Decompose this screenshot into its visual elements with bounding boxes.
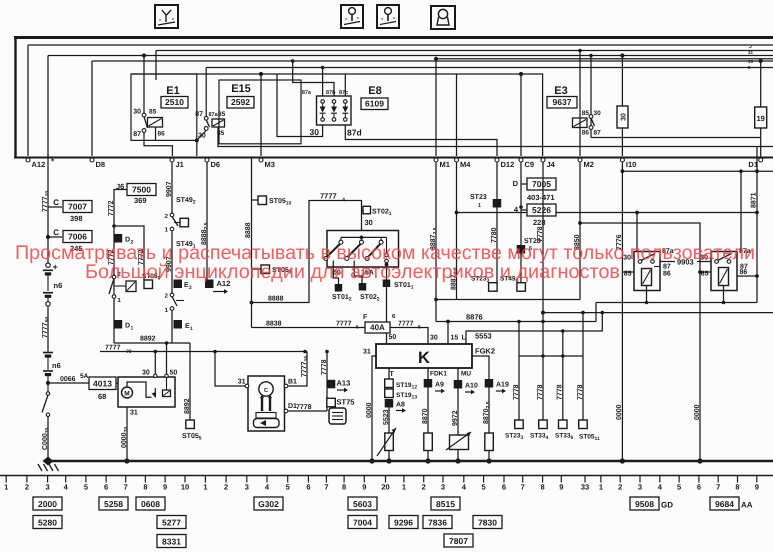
wire riser A12 xyxy=(27,45,29,156)
svg-text:398: 398 xyxy=(70,214,83,223)
splice A12 arrow xyxy=(205,280,214,289)
ignition switch box xyxy=(327,231,399,268)
wire y223 right xyxy=(580,223,700,272)
relay K1 85 wire xyxy=(622,271,634,273)
svg-text:7778: 7778 xyxy=(577,384,584,400)
svg-text:31: 31 xyxy=(130,410,138,417)
svg-text:85: 85 xyxy=(218,111,226,118)
svg-text:A19: A19 xyxy=(496,382,509,389)
svg-text:7830: 7830 xyxy=(478,518,497,528)
switch side resistor xyxy=(114,285,126,287)
svg-text:8838: 8838 xyxy=(266,321,282,328)
wire relay bottoms y302 xyxy=(596,302,757,304)
svg-text:A10: A10 xyxy=(465,383,478,390)
svg-text:15: 15 xyxy=(451,335,459,342)
wire M1 column 8887 xyxy=(435,162,437,300)
svg-text:9637: 9637 xyxy=(553,97,572,107)
wire cross y299 xyxy=(436,299,580,301)
icon lamp symbol 4 xyxy=(431,6,455,29)
terminal I10 xyxy=(620,158,624,162)
svg-text:30: 30 xyxy=(133,109,141,116)
svg-text:7004: 7004 xyxy=(353,518,372,528)
ground junction battery xyxy=(43,457,54,466)
terminal star xyxy=(47,154,49,162)
svg-text:31: 31 xyxy=(748,50,754,55)
svg-text:9: 9 xyxy=(163,483,167,492)
svg-text:C9: C9 xyxy=(525,160,535,169)
svg-text:I10: I10 xyxy=(626,160,636,169)
svg-text:E8: E8 xyxy=(368,85,381,97)
svg-text:E3: E3 xyxy=(554,85,567,97)
wire L5 y67.5 xyxy=(206,67,773,69)
connector C 7007 xyxy=(48,206,62,208)
svg-text:31: 31 xyxy=(363,349,371,356)
svg-text:M1: M1 xyxy=(440,160,450,169)
svg-text:30: 30 xyxy=(594,110,602,117)
relay E1 contact xyxy=(142,113,146,117)
svg-text:403-471: 403-471 xyxy=(527,193,555,202)
ignition contacts xyxy=(339,240,343,244)
svg-text:10: 10 xyxy=(181,483,189,492)
battery n6 second xyxy=(43,352,53,354)
connector ST05-11 xyxy=(582,356,584,420)
wire 7777-10 xyxy=(47,162,49,265)
fuse 4013 box xyxy=(89,377,116,390)
svg-text:D: D xyxy=(125,323,130,330)
relay K2 coil xyxy=(719,268,729,286)
gauge coils xyxy=(261,397,263,411)
svg-text:J1: J1 xyxy=(176,160,184,169)
code box 9508 GD xyxy=(630,497,659,510)
node 8876 J4 cross xyxy=(541,320,545,324)
wire starter 50 riser xyxy=(166,343,168,374)
axis ticks and numbers xyxy=(5,476,7,483)
wire 8871 column xyxy=(756,147,758,303)
svg-text:1: 1 xyxy=(131,326,134,332)
svg-text:2: 2 xyxy=(224,483,228,492)
svg-text:5: 5 xyxy=(677,483,681,492)
svg-text:86: 86 xyxy=(582,130,590,137)
svg-text:50: 50 xyxy=(389,334,397,341)
wire 9972 sensor xyxy=(457,389,459,436)
wire riser E1 pin30 xyxy=(143,56,145,114)
svg-text:7777: 7777 xyxy=(398,321,414,328)
svg-text:8515: 8515 xyxy=(436,499,455,509)
svg-text:87c: 87c xyxy=(339,90,348,96)
wire 9907 column xyxy=(171,162,173,213)
svg-text:MU: MU xyxy=(461,371,471,378)
svg-text:1: 1 xyxy=(203,483,207,492)
svg-text:8870: 8870 xyxy=(422,408,429,424)
wire J4 column 7778 xyxy=(542,162,544,356)
relay K2 contact xyxy=(715,260,719,264)
svg-text:8331: 8331 xyxy=(162,537,181,547)
svg-text:8892: 8892 xyxy=(184,398,191,414)
svg-text:7: 7 xyxy=(521,483,525,492)
svg-text:85: 85 xyxy=(582,110,590,117)
relay E3 coil xyxy=(573,118,588,128)
svg-text:40A: 40A xyxy=(370,323,385,332)
starter internal wiring xyxy=(127,382,152,397)
wire 7778 riser A13 xyxy=(326,352,328,412)
wire 8876 drop to connector bar xyxy=(518,322,520,357)
connector ST05-10 xyxy=(252,199,259,201)
node L4b-M1 xyxy=(434,57,438,61)
starter motor M xyxy=(122,387,133,398)
svg-text:8: 8 xyxy=(342,483,346,492)
wire relay2 87a riser xyxy=(740,171,742,251)
splice ST01-1 xyxy=(383,280,391,288)
terminal A12 xyxy=(26,158,30,162)
svg-text:GD: GD xyxy=(661,501,673,510)
svg-text:7007: 7007 xyxy=(68,202,87,212)
connector ST33-4 xyxy=(542,356,544,420)
gauge sensor plate xyxy=(256,413,276,419)
relay K2 coil bottom wire xyxy=(723,286,725,303)
svg-text:7780: 7780 xyxy=(491,227,498,243)
svg-text:6: 6 xyxy=(418,325,421,331)
relay K1 riser 30 xyxy=(636,213,638,252)
relay E1 enclosure xyxy=(131,74,197,140)
svg-text:85: 85 xyxy=(149,109,157,116)
svg-text:9907: 9907 xyxy=(166,181,173,197)
svg-text:30: 30 xyxy=(621,113,628,121)
connector ST23-3 xyxy=(518,356,520,420)
svg-text:9684: 9684 xyxy=(715,499,734,509)
splice D1 left xyxy=(114,320,123,329)
code box 5280 xyxy=(33,516,62,529)
node L3-fuseX xyxy=(620,53,624,57)
wire 5553 drop to connector bar xyxy=(562,331,564,356)
wire riser D8 xyxy=(91,61,93,156)
E8 code box 6109 xyxy=(361,98,388,110)
terminal D12 xyxy=(495,158,499,162)
wire riser E15 pin xyxy=(205,68,207,118)
wire riser C9 top xyxy=(520,74,522,156)
axis line xyxy=(0,475,773,477)
wire 0000 column right xyxy=(699,272,701,461)
connector ST33-6 xyxy=(562,356,564,420)
svg-text:M4: M4 xyxy=(460,160,471,169)
relay E1 87 wire to J1 xyxy=(144,132,172,156)
relay K2 86 wire xyxy=(737,275,757,277)
svg-text:1: 1 xyxy=(478,203,481,209)
svg-text:9972: 9972 xyxy=(452,410,459,426)
svg-text:L: L xyxy=(462,335,467,342)
wire branch to ST05-8 xyxy=(114,226,144,280)
relay E1 86 wire to node xyxy=(155,127,157,140)
svg-text:2510: 2510 xyxy=(165,97,184,107)
icon bulb-key symbol 2 xyxy=(341,5,363,28)
svg-text:50: 50 xyxy=(170,370,178,377)
wire L4b y58.8 xyxy=(436,58,773,60)
svg-text:87: 87 xyxy=(133,131,141,138)
svg-text:B1: B1 xyxy=(288,379,297,386)
svg-text:M2: M2 xyxy=(584,160,594,169)
wire gauge 31 left riser xyxy=(215,352,245,387)
svg-text:3: 3 xyxy=(638,483,642,492)
svg-text:7778: 7778 xyxy=(557,384,564,400)
svg-text:0000: 0000 xyxy=(694,404,701,420)
code box 8331 xyxy=(157,535,186,548)
svg-text:7807: 7807 xyxy=(449,536,468,546)
wire extra right band from E15 85 xyxy=(218,128,773,147)
svg-text:FDK1: FDK1 xyxy=(430,371,447,378)
svg-text:A13: A13 xyxy=(337,378,351,387)
svg-text:19: 19 xyxy=(757,114,765,123)
svg-text:9: 9 xyxy=(559,483,563,492)
svg-text:n6: n6 xyxy=(54,281,63,290)
svg-text:7006: 7006 xyxy=(68,232,87,242)
svg-text:K: K xyxy=(418,349,430,367)
wire riser M2-E3 xyxy=(579,51,581,157)
svg-text:2: 2 xyxy=(422,483,426,492)
wire M2 column 8850 xyxy=(579,162,581,300)
diode E8-3 xyxy=(344,100,348,104)
svg-text:30: 30 xyxy=(310,127,320,137)
connector ST49-6 xyxy=(517,283,526,292)
code box G302 xyxy=(254,497,283,510)
svg-text:1: 1 xyxy=(4,483,8,492)
svg-text:31: 31 xyxy=(238,379,246,386)
terminal M3 xyxy=(259,158,263,162)
svg-text:E1: E1 xyxy=(166,85,179,97)
svg-text:0000: 0000 xyxy=(366,402,373,418)
node J4 y212 xyxy=(541,211,545,215)
wire connector bar xyxy=(519,355,583,357)
connector 4 5226 xyxy=(519,205,523,209)
svg-text:C: C xyxy=(53,198,59,207)
terminal J1 xyxy=(170,158,174,162)
fuse 30 mid xyxy=(621,56,623,107)
node branch 7772 xyxy=(112,224,116,228)
svg-text:2: 2 xyxy=(25,483,29,492)
svg-text:7772: 7772 xyxy=(108,200,115,216)
svg-text:1: 1 xyxy=(190,326,193,332)
svg-text:A9: A9 xyxy=(435,382,444,389)
clock module icon xyxy=(329,408,346,424)
wire 9903 xyxy=(660,261,675,263)
code box 7836 xyxy=(423,516,452,529)
wire E3 87 to D1 column xyxy=(591,137,761,139)
svg-text:9508: 9508 xyxy=(635,499,654,509)
svg-text:30: 30 xyxy=(430,335,438,342)
svg-text:3: 3 xyxy=(46,483,50,492)
svg-text:A12: A12 xyxy=(32,160,46,169)
K pin T chain xyxy=(388,368,390,379)
svg-text:7: 7 xyxy=(124,483,128,492)
svg-text:87: 87 xyxy=(195,111,203,118)
node J4 y312 xyxy=(541,311,545,315)
switch J6 column xyxy=(112,275,116,279)
svg-text:3: 3 xyxy=(441,483,445,492)
svg-text:FGK2: FGK2 xyxy=(475,347,495,356)
svg-text:86: 86 xyxy=(663,271,671,278)
svg-text:T: T xyxy=(390,371,395,378)
code box 7830 xyxy=(473,516,502,529)
wire y212 right xyxy=(457,212,758,214)
svg-text:2: 2 xyxy=(189,285,192,291)
terminal M4 xyxy=(455,158,459,162)
relay K2 box xyxy=(711,252,737,291)
svg-text:5226: 5226 xyxy=(532,205,551,215)
wire E8 87b to L4 xyxy=(293,61,334,96)
svg-text:86: 86 xyxy=(158,131,166,138)
svg-text:F: F xyxy=(363,314,368,321)
svg-text:6: 6 xyxy=(697,483,701,492)
node L3-E1 xyxy=(142,53,146,57)
svg-text:0066: 0066 xyxy=(60,376,76,383)
wire 7780 column xyxy=(496,208,498,283)
svg-text:7778: 7778 xyxy=(537,384,544,400)
svg-text:86: 86 xyxy=(740,269,748,276)
node 8888 branch xyxy=(250,301,254,305)
svg-text:D8: D8 xyxy=(96,160,106,169)
connector C 7006 xyxy=(46,235,50,239)
svg-text:7778: 7778 xyxy=(296,404,312,411)
svg-text:2592: 2592 xyxy=(231,97,250,107)
battery n6 plus xyxy=(46,263,50,267)
code box 2000 xyxy=(33,497,62,510)
connector ST23-3 mid xyxy=(489,283,498,292)
wire starter 30 riser xyxy=(154,352,156,375)
wire 8888 horizontal xyxy=(252,201,362,303)
svg-text:5: 5 xyxy=(84,483,88,492)
svg-text:8876: 8876 xyxy=(466,313,483,322)
wire K31 to ground xyxy=(372,356,376,461)
svg-text:5277: 5277 xyxy=(162,518,181,528)
wire corner to E8 pin30 xyxy=(277,74,323,137)
svg-text:5: 5 xyxy=(482,483,486,492)
splice ST02-2 xyxy=(359,283,367,291)
relay E15 contact xyxy=(204,116,208,120)
wire L1 y45 xyxy=(28,44,773,46)
svg-text:5553: 5553 xyxy=(475,332,492,341)
svg-text:7778: 7778 xyxy=(537,226,544,242)
svg-text:Большой энциклопедии для автоэ: Большой энциклопедии для автоэлектриков … xyxy=(85,261,620,283)
svg-text:6: 6 xyxy=(502,483,506,492)
wire 8838 to fuse 40A row xyxy=(252,328,429,345)
svg-text:M3: M3 xyxy=(265,160,275,169)
svg-text:G302: G302 xyxy=(258,499,279,509)
switch lower J1 xyxy=(170,293,174,297)
svg-text:A8: A8 xyxy=(396,402,405,409)
relay E15 enclosure xyxy=(219,80,301,144)
starter motor box xyxy=(118,377,175,407)
svg-text:70: 70 xyxy=(126,349,132,355)
wire L3 y55.5 xyxy=(48,55,773,57)
svg-text:1: 1 xyxy=(599,483,603,492)
svg-text:369: 369 xyxy=(134,196,147,205)
svg-text:9: 9 xyxy=(755,483,759,492)
svg-text:87a: 87a xyxy=(302,90,312,96)
wire 8888-2.5 column xyxy=(206,162,208,280)
node L6-M3 xyxy=(259,72,263,76)
svg-text:5603: 5603 xyxy=(353,499,372,509)
svg-text:D12: D12 xyxy=(501,160,515,169)
svg-text:9: 9 xyxy=(362,483,366,492)
connector D 7005 xyxy=(520,162,522,255)
wire riser E15 top xyxy=(155,51,157,81)
wire y171 right xyxy=(622,170,773,172)
svg-text:8: 8 xyxy=(143,483,147,492)
code box 0608 xyxy=(136,497,165,510)
node L6-C9 xyxy=(519,72,523,76)
fuel gauge box xyxy=(248,376,285,431)
svg-text:0608: 0608 xyxy=(141,499,160,509)
wire M4 column 8887 xyxy=(456,162,458,300)
wire 8876 riser K15 xyxy=(447,322,449,345)
icon bulb-key symbol 3 xyxy=(377,5,399,28)
wire riser M4 xyxy=(456,74,458,156)
code box 7004 xyxy=(348,516,377,529)
splice E2 xyxy=(174,280,183,289)
code box 9684 AA xyxy=(710,497,739,510)
diode E8-1 xyxy=(321,100,325,104)
svg-text:2000: 2000 xyxy=(38,499,57,509)
svg-text:D6: D6 xyxy=(211,160,221,169)
wire 5553 from L pin xyxy=(466,313,602,344)
relay K1 contact xyxy=(638,260,642,264)
wire I10 column 7776 xyxy=(621,162,623,272)
wire B1 to 7777-16 xyxy=(288,352,307,387)
svg-text:16: 16 xyxy=(748,59,754,64)
code box 7807 xyxy=(444,534,473,547)
svg-text:7777: 7777 xyxy=(320,192,337,201)
svg-text:J4: J4 xyxy=(547,160,556,169)
code box 5258 xyxy=(99,497,128,510)
svg-text:7778: 7778 xyxy=(321,359,328,375)
svg-text:7778: 7778 xyxy=(513,384,520,400)
relay E1 code box 2510 xyxy=(161,97,188,109)
svg-text:8: 8 xyxy=(735,483,739,492)
svg-text:5258: 5258 xyxy=(104,499,123,509)
svg-text:87: 87 xyxy=(594,130,602,137)
wire E8 87a riser xyxy=(322,68,324,97)
wire riser ST05-11 bar xyxy=(582,313,584,356)
battery switch xyxy=(46,392,49,395)
svg-text:8888: 8888 xyxy=(245,222,252,238)
svg-text:8871: 8871 xyxy=(750,192,757,208)
svg-text:68: 68 xyxy=(98,392,106,401)
wire L4 y61 xyxy=(92,60,773,62)
wire riser star terminal xyxy=(47,56,49,157)
svg-text:6: 6 xyxy=(356,325,359,331)
wire 7778 horizontal xyxy=(288,410,327,412)
wire 8892 horizontal xyxy=(114,342,190,344)
svg-text:87: 87 xyxy=(663,264,671,271)
fuse 19 xyxy=(760,61,762,107)
relay E3 code box 9637 xyxy=(547,97,577,109)
wire 8870 resistor xyxy=(427,388,429,434)
relay E15 pin30 wire to bus xyxy=(197,130,206,140)
terminal D1 xyxy=(759,158,763,162)
svg-text:ST75: ST75 xyxy=(337,397,355,406)
svg-text:20: 20 xyxy=(381,483,389,492)
left frame vertical xyxy=(14,37,16,158)
ground bus bottom xyxy=(46,460,773,463)
connector ST75 xyxy=(327,398,336,407)
svg-text:M: M xyxy=(124,391,129,398)
svg-text:D: D xyxy=(513,179,519,188)
diode E8-2 xyxy=(332,100,336,104)
code box 5277 xyxy=(157,516,186,529)
terminal bus xyxy=(14,157,773,159)
svg-text:5523: 5523 xyxy=(383,409,390,425)
svg-text:n6: n6 xyxy=(52,361,61,370)
wire y312 right xyxy=(543,312,773,314)
diode block E8 box xyxy=(317,96,352,125)
